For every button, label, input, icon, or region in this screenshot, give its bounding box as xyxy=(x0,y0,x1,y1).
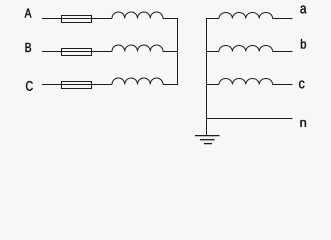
node a label xyxy=(300,6,306,14)
fuse F1 (phase A) xyxy=(62,16,92,23)
wire phase c to terminal xyxy=(273,84,293,86)
ground bar 1 xyxy=(195,135,220,137)
node C label xyxy=(26,81,33,91)
wire phase b to terminal xyxy=(273,51,293,53)
wire phase a to terminal xyxy=(273,18,293,20)
inductor L4 (phase a) xyxy=(219,13,273,19)
node A label xyxy=(25,9,32,18)
node c label xyxy=(299,81,304,89)
right star-point bus wire xyxy=(206,18,208,136)
ground bar 2 xyxy=(200,139,215,141)
wire phase B to left bus xyxy=(163,51,178,53)
inductor L1 (phase A) xyxy=(112,12,163,18)
fuse F2 (phase B) xyxy=(62,49,92,56)
wire phase B from label through fuse to inductor xyxy=(42,51,112,53)
wire phase A from label through fuse to inductor xyxy=(42,18,112,20)
wire bus to inductor L6 xyxy=(206,84,219,86)
inductor L3 (phase C) xyxy=(112,78,163,84)
ground bar 3 xyxy=(204,143,212,145)
node B label xyxy=(26,43,32,52)
node b label xyxy=(301,39,306,49)
wire neutral n xyxy=(206,118,293,120)
fuse F3 (phase C) xyxy=(62,82,92,89)
node n label xyxy=(300,120,306,127)
wire bus to inductor L4 xyxy=(206,18,219,20)
wire phase C to left bus xyxy=(163,84,178,86)
inductor L5 (phase b) xyxy=(219,46,273,52)
left neutral bus wire xyxy=(177,18,179,85)
inductor L6 (phase c) xyxy=(219,79,273,85)
wire phase A to left bus xyxy=(163,18,178,20)
wire bus to inductor L5 xyxy=(206,51,219,53)
inductor L2 (phase B) xyxy=(112,45,163,52)
wire phase C from label through fuse to inductor xyxy=(42,84,112,86)
